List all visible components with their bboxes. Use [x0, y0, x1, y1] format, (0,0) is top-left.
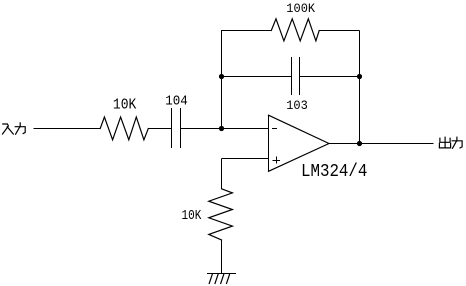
svg-text:10K: 10K — [113, 97, 137, 114]
svg-text:103: 103 — [286, 98, 308, 113]
svg-text:104: 104 — [165, 93, 188, 109]
svg-text:LM324/4: LM324/4 — [301, 162, 367, 182]
svg-text:10K: 10K — [182, 208, 202, 223]
svg-text:100K: 100K — [286, 2, 315, 17]
